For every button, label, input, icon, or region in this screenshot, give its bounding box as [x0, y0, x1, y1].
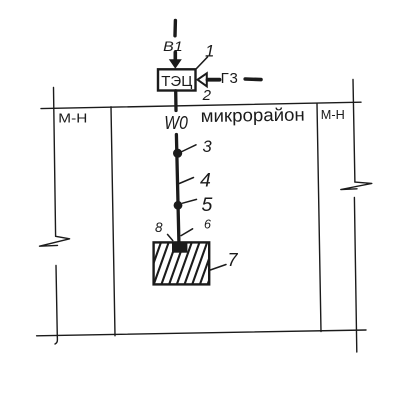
svg-text:Г3: Г3: [221, 70, 239, 87]
left boundary outer line (upper): [54, 88, 56, 237]
wire G3: [208, 78, 220, 82]
wire: TEC outlet down: [174, 91, 178, 111]
svg-text:6: 6: [204, 217, 211, 231]
svg-text:микрорайон: микрорайон: [201, 105, 305, 126]
svg-text:1: 1: [205, 41, 214, 60]
break symbol left: [40, 236, 70, 246]
node 3 (junction dot): [173, 149, 182, 158]
valve: hollow arrow G3 into TEC: [198, 73, 207, 86]
svg-text:В1: В1: [163, 38, 183, 54]
svg-text:М-Н: М-Н: [58, 112, 87, 126]
svg-text:5: 5: [202, 194, 213, 216]
left boundary outer line (lower): [55, 266, 57, 345]
svg-text:8: 8: [155, 220, 163, 235]
svg-text:ТЭЦ: ТЭЦ: [161, 73, 192, 90]
svg-text:4: 4: [200, 169, 211, 191]
right boundary outer line (lower): [354, 198, 356, 353]
svg-text:3: 3: [203, 138, 213, 156]
block U1 TEC: [158, 69, 196, 90]
wire: arrow B1 into TEC: [169, 52, 182, 69]
leader to label 6: [181, 229, 193, 236]
leader to label 3: [182, 145, 196, 152]
boundary line bottom: [37, 330, 366, 336]
wire: supply stub above B1: [173, 21, 177, 36]
break symbol right: [341, 182, 372, 189]
leader to label 7: [210, 265, 226, 271]
right boundary outer line (upper): [353, 80, 355, 183]
svg-text:2: 2: [202, 87, 212, 104]
svg-text:М-Н: М-Н: [321, 108, 345, 122]
svg-text:7: 7: [228, 250, 239, 270]
svg-text:W0: W0: [164, 113, 188, 133]
leader from label 8: [168, 234, 173, 240]
right boundary inner line: [317, 104, 321, 332]
consumer block 7 (hatched building): [146, 242, 223, 284]
leader to label 4: [179, 178, 193, 184]
leader to label 1: [197, 57, 208, 69]
leader to label 5: [183, 199, 197, 203]
inlet unit 8 (solid square): [172, 242, 187, 253]
left boundary inner line: [111, 107, 115, 336]
wire: G3 dash: [245, 77, 261, 81]
wire: main riser W0: [176, 135, 179, 243]
boundary line top M-N: [41, 102, 361, 108]
node 5 (junction dot): [174, 201, 183, 210]
